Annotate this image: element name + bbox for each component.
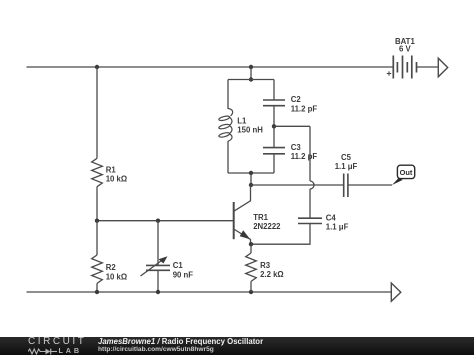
node tank top center <box>249 77 253 81</box>
wire midpoint horizontal to x310 <box>274 125 310 127</box>
capacitor C3 <box>263 148 285 154</box>
wire R2 to bottom rail <box>96 283 98 292</box>
node C2/C3 midpoint <box>272 124 276 128</box>
wire C2 to midpoint <box>273 106 275 148</box>
wire collector rail to C5 <box>251 184 344 186</box>
wire tank top edge <box>228 79 274 81</box>
wire tank right upper lead <box>273 80 275 101</box>
wire vertical x310 to C4 <box>309 189 311 218</box>
wire C5 to Out <box>348 184 392 186</box>
resistor R2 <box>92 255 103 283</box>
flag terminal bottom right <box>391 283 401 301</box>
node top-rail/R1 junction <box>95 65 99 69</box>
inductor L1 <box>218 109 232 142</box>
wire C3 to tank bottom <box>273 154 275 173</box>
logo CircuitLab <box>28 336 86 347</box>
svg-text:10 kΩ: 10 kΩ <box>106 175 127 184</box>
wire tank bottom to collector node <box>250 173 252 185</box>
node base-rail/C1 junction <box>156 219 160 223</box>
svg-text:1.1 μF: 1.1 μF <box>326 223 349 232</box>
svg-text:TR1: TR1 <box>253 213 268 222</box>
svg-text:11.2 pF: 11.2 pF <box>291 104 318 113</box>
node bottom-rail/C1 junction <box>156 290 160 294</box>
node emitter <box>249 242 253 246</box>
svg-text:L1: L1 <box>237 117 247 126</box>
capacitor C1 (variable) <box>141 256 171 276</box>
wire R3 to bottom rail <box>250 281 252 292</box>
svg-text:C4: C4 <box>326 214 337 223</box>
battery BAT1 <box>387 56 417 79</box>
resistor R3 <box>246 253 257 281</box>
wire tank left upper lead <box>227 80 229 110</box>
transistor TR1 2N2222 <box>234 185 251 244</box>
svg-text:11.2 pF: 11.2 pF <box>291 152 318 161</box>
wire emitter to R3 <box>250 244 252 253</box>
capacitor C4 <box>298 218 322 223</box>
footer bar <box>0 337 474 355</box>
node bottom-rail/R3 junction <box>249 290 253 294</box>
wire R2 branch upper <box>96 221 98 255</box>
svg-text:2.2 kΩ: 2.2 kΩ <box>260 270 284 279</box>
capacitor C2 <box>263 100 285 106</box>
svg-text:150 nH: 150 nH <box>237 126 263 135</box>
svg-text:1.1 μF: 1.1 μF <box>335 162 358 171</box>
flag terminal top right <box>438 58 447 77</box>
node tank bottom center <box>249 171 253 175</box>
svg-text:R1: R1 <box>106 166 117 175</box>
node collector <box>249 183 253 187</box>
wire R1 branch upper <box>96 67 98 158</box>
capacitor C5 <box>344 174 348 198</box>
node base-rail/R1/R2 junction <box>95 219 99 223</box>
wire bottom rail <box>27 291 392 293</box>
wire C1 branch upper <box>157 221 159 266</box>
wire R1 to base rail <box>96 187 98 221</box>
node name flag Out <box>392 165 415 185</box>
wire C1 to bottom rail <box>157 270 159 292</box>
svg-text:C3: C3 <box>291 143 302 152</box>
wire C4 to emitter rail <box>251 224 310 245</box>
wire hop over collector rail <box>310 181 314 189</box>
svg-text:6 V: 6 V <box>399 44 412 53</box>
wire base rail <box>97 220 234 222</box>
svg-text:10 kΩ: 10 kΩ <box>106 272 127 281</box>
svg-text:C2: C2 <box>291 95 302 104</box>
svg-text:R3: R3 <box>260 261 271 270</box>
svg-text:90 nF: 90 nF <box>173 270 194 279</box>
svg-text:C5: C5 <box>341 153 352 162</box>
svg-text:R2: R2 <box>106 263 117 272</box>
wire battery to flag <box>417 66 439 68</box>
wire vertical x310 upper <box>309 126 311 181</box>
node bottom-rail/R2 junction <box>95 290 99 294</box>
resistor R1 <box>92 158 103 186</box>
node top-rail/tank junction <box>249 65 253 69</box>
wire tank left lower lead <box>227 141 229 173</box>
wire tank bottom edge <box>228 172 274 174</box>
wire top rail V+ <box>27 66 394 68</box>
svg-text:C1: C1 <box>173 261 184 270</box>
svg-text:2N2222: 2N2222 <box>253 222 281 231</box>
svg-text:Out: Out <box>400 168 413 177</box>
wire tank top stub <box>250 67 252 80</box>
